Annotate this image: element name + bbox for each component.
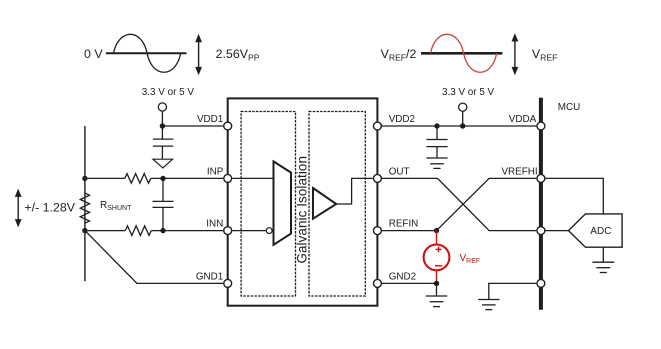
pin VDD1 <box>224 122 232 130</box>
ground ADC <box>592 262 614 272</box>
wire INN inside box <box>232 230 265 232</box>
wire MCU bus (bold) <box>539 98 543 310</box>
capacitor VDD2 decoupling <box>426 126 447 158</box>
wire REFIN to crossover <box>382 230 437 232</box>
svg-text:REFIN: REFIN <box>389 219 419 230</box>
wire ADC to ground <box>602 247 604 262</box>
wire INN row: bus to resistor <box>85 230 125 232</box>
node 0V waveform axis <box>106 52 187 54</box>
high-side dashed section <box>241 112 295 297</box>
svg-text:VDD2: VDD2 <box>389 114 415 125</box>
node junction dot REFIN/VREF source <box>434 228 439 233</box>
svg-text:Galvanic Isolation: Galvanic Isolation <box>295 156 310 264</box>
resistor RSHUNT (vertical zigzag on bus) <box>80 193 89 223</box>
voltage source VREF (red) <box>424 231 450 284</box>
wire VDD2 to VDDA <box>382 125 536 127</box>
pin VDD2 <box>373 122 381 130</box>
op-amp ADC block <box>569 214 623 247</box>
svg-text:GND1: GND1 <box>196 271 224 282</box>
op-amp package outline (isolated amplifier box) <box>228 98 378 305</box>
wire INP row: resistor to pin <box>151 177 223 179</box>
wire MCU ground pin to ground <box>489 283 537 299</box>
wire OUT to crossover <box>382 178 536 230</box>
svg-text:0 V: 0 V <box>84 47 103 61</box>
wire left sense bus vertical <box>84 126 86 281</box>
pin MCU ground <box>537 279 545 287</box>
ground floating (open triangle) <box>153 159 173 168</box>
wire sine wave right (red, output signal) <box>431 34 497 72</box>
power terminal 3.3V/5V left <box>158 103 166 111</box>
pin GND2 <box>373 279 381 287</box>
node junction dot GND2 <box>434 281 439 286</box>
wire supply to VDD1 <box>161 112 163 126</box>
ground GND2 <box>426 296 447 307</box>
svg-text:3.3 V or 5 V: 3.3 V or 5 V <box>442 87 495 98</box>
node junction dot VDD2/supply <box>460 123 465 128</box>
wire VREFHI to ADC top <box>546 178 604 214</box>
svg-text:OUT: OUT <box>389 166 410 177</box>
svg-text:VDDA: VDDA <box>509 114 537 125</box>
power terminal 3.3V/5V right <box>459 103 467 111</box>
resistor input INP (horizontal zigzag) <box>125 174 151 184</box>
wire sine wave left (input signal) <box>114 34 181 72</box>
node junction dot bus/INN <box>82 228 87 233</box>
pin VREFHI <box>537 174 545 182</box>
node VREF range arrow <box>512 33 519 75</box>
svg-text:MCU: MCU <box>558 102 581 113</box>
pin GND1 <box>224 279 232 287</box>
node INN inversion bubble <box>266 228 272 234</box>
pin INP <box>224 174 232 182</box>
wire GND1 diagonal from bus <box>85 231 223 284</box>
node junction dot VDD1/cap <box>160 123 165 128</box>
node junction dot INP/cap <box>160 176 165 181</box>
wire supply stem right <box>462 112 464 126</box>
pin INN <box>224 227 232 235</box>
svg-text:VREFHI: VREFHI <box>501 166 537 177</box>
op-amp modulator trapezoid U1 <box>274 161 292 244</box>
pin ADC input <box>537 227 545 235</box>
node 2.56Vpp range arrow <box>195 34 202 75</box>
capacitor VDD1 decoupling <box>153 126 173 159</box>
node junction dot INN/cap <box>160 228 165 233</box>
wire GND2 to ground <box>436 283 438 296</box>
capacitor differential input filter <box>153 178 174 230</box>
wire buffer output to OUT pin <box>336 178 373 204</box>
svg-text:3.3 V or 5 V: 3.3 V or 5 V <box>142 87 195 98</box>
wire INP inside box <box>232 177 273 179</box>
resistor input INN (horizontal zigzag) <box>125 226 151 236</box>
ground VDD2 cap <box>426 158 447 168</box>
svg-text:ADC: ADC <box>590 226 611 237</box>
wire ADC input <box>546 230 569 232</box>
wire GND2 row <box>382 282 437 284</box>
svg-text:INP: INP <box>207 166 224 177</box>
svg-text:GND2: GND2 <box>389 271 416 282</box>
op-amp output buffer triangle <box>313 188 336 219</box>
low-side dashed section <box>309 112 365 297</box>
node junction dot VDD2/cap <box>434 123 439 128</box>
svg-text:INN: INN <box>206 219 223 230</box>
svg-text:VDD1: VDD1 <box>197 114 224 125</box>
node +/-1.28V range arrow <box>15 189 22 228</box>
node VREF/2 waveform axis <box>421 52 502 55</box>
svg-text:+/- 1.28V: +/- 1.28V <box>24 200 75 214</box>
node junction dot bus/INP <box>82 176 87 181</box>
ground MCU <box>478 300 499 310</box>
wire INP row: bus to resistor <box>85 177 125 179</box>
wire INN row: resistor to pin <box>151 230 223 232</box>
pin OUT <box>373 174 381 182</box>
pin REFIN <box>373 227 381 235</box>
pin VDDA <box>537 122 545 130</box>
